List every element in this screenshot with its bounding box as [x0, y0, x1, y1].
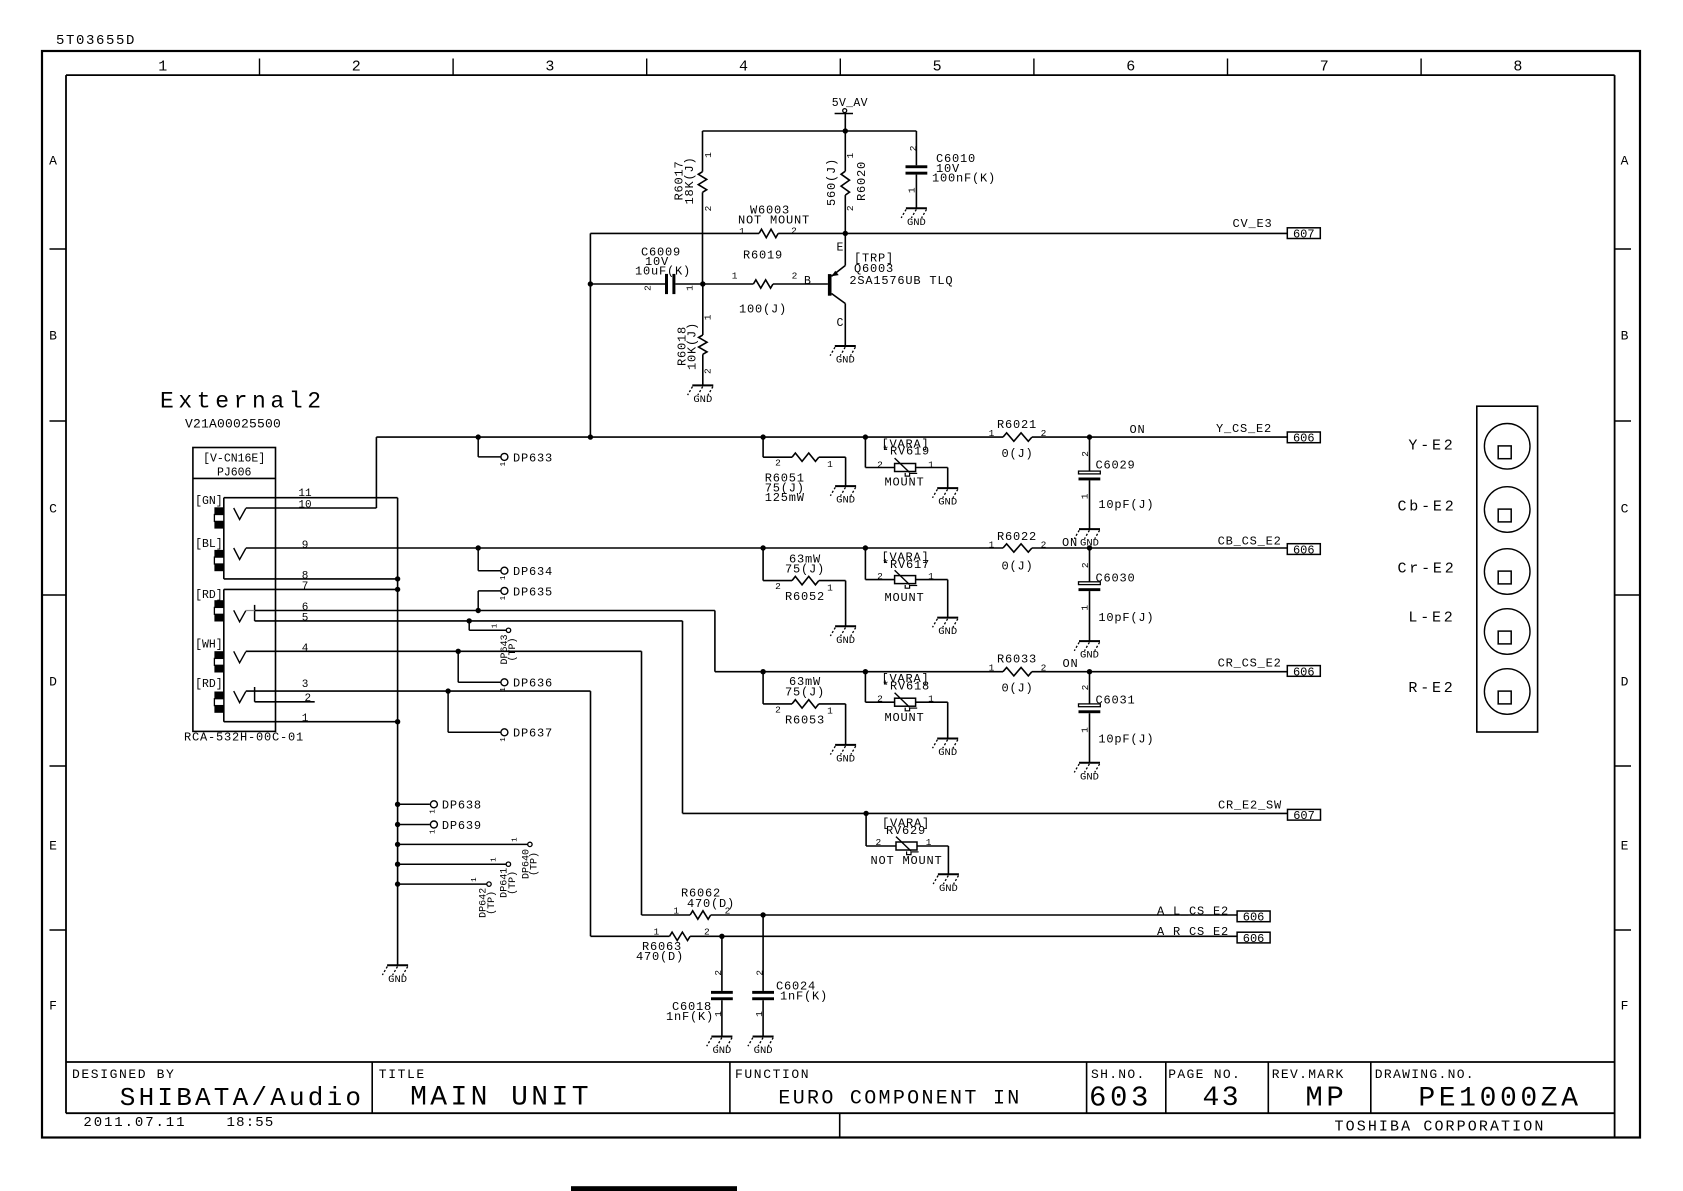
svg-text:DP639: DP639 — [442, 819, 482, 833]
svg-text:0(J): 0(J) — [1001, 559, 1033, 573]
svg-text:1: 1 — [827, 459, 833, 470]
row grid ticks right — [1615, 248, 1631, 250]
svg-text:F: F — [1621, 999, 1629, 1014]
svg-text:A_L_CS_E2: A_L_CS_E2 — [1157, 905, 1229, 919]
svg-text:5T03655D: 5T03655D — [56, 33, 136, 49]
svg-text:TITLE: TITLE — [379, 1067, 426, 1082]
svg-text:B: B — [1621, 329, 1629, 344]
junction base node — [700, 281, 705, 286]
ground under RV618 — [937, 738, 958, 740]
resistor R6052 75(J) 63mW — [760, 545, 765, 550]
capacitor C6018 1nF(K) — [721, 936, 723, 991]
svg-text:GND: GND — [907, 217, 926, 229]
top supply rail wire — [703, 130, 917, 132]
bottom edge artifact bar — [571, 1186, 737, 1191]
svg-text:1: 1 — [989, 663, 995, 674]
svg-text:2: 2 — [713, 970, 724, 976]
svg-text:1: 1 — [429, 809, 437, 814]
svg-text:[RD]: [RD] — [195, 589, 223, 602]
svg-text:Cr-E2: Cr-E2 — [1397, 560, 1456, 577]
ground under R6018 — [692, 384, 713, 386]
RD1 pin stub tying wires 5/6 — [254, 605, 256, 621]
svg-text:R6033: R6033 — [997, 653, 1037, 667]
wire pin5 descent — [682, 621, 684, 814]
column grid ticks — [259, 59, 261, 76]
svg-text:R6020: R6020 — [855, 161, 869, 201]
svg-text:(TP): (TP) — [529, 852, 541, 876]
svg-text:DRAWING.NO.: DRAWING.NO. — [1375, 1067, 1475, 1082]
svg-text:2: 2 — [877, 693, 883, 704]
junction C6009 left / vertical — [588, 281, 593, 286]
off-page box 606 A_R_CS_E2 — [1237, 932, 1270, 943]
ground under C6029 — [1079, 528, 1100, 530]
off-page box 607 CR_E2_SW — [1288, 809, 1321, 820]
svg-text:125mW: 125mW — [765, 491, 805, 505]
svg-text:7: 7 — [1320, 59, 1329, 76]
svg-text:GND: GND — [388, 974, 407, 986]
svg-text:606: 606 — [1293, 665, 1315, 679]
svg-text:607: 607 — [1293, 228, 1315, 242]
svg-text:4: 4 — [302, 643, 309, 655]
svg-text:NOT MOUNT: NOT MOUNT — [738, 214, 810, 228]
ground under R6051 — [835, 485, 856, 487]
svg-text:*RV619: *RV619 — [882, 445, 930, 459]
svg-text:1: 1 — [703, 152, 714, 158]
svg-text:2: 2 — [1041, 540, 1047, 551]
svg-text:V21A00025500: V21A00025500 — [185, 417, 281, 432]
svg-text:D: D — [1621, 675, 1629, 690]
svg-text:2SA1576UB TLQ: 2SA1576UB TLQ — [849, 274, 953, 288]
svg-text:5: 5 — [302, 612, 309, 624]
svg-text:GND: GND — [938, 497, 957, 509]
svg-text:1: 1 — [429, 829, 437, 834]
svg-text:F: F — [49, 999, 57, 1014]
svg-text:R6052: R6052 — [785, 590, 825, 604]
ground under R6052 — [835, 625, 856, 627]
svg-text:43: 43 — [1202, 1083, 1241, 1114]
svg-text:R6053: R6053 — [785, 713, 825, 727]
svg-text:MOUNT: MOUNT — [884, 476, 924, 490]
svg-text:9: 9 — [302, 540, 309, 552]
svg-text:E: E — [49, 839, 57, 854]
svg-text:EURO COMPONENT IN: EURO COMPONENT IN — [778, 1088, 1021, 1111]
jumper DP638 — [395, 802, 400, 807]
svg-text:470(D): 470(D) — [636, 950, 684, 964]
jumper DP636 — [456, 649, 461, 654]
svg-text:3: 3 — [545, 59, 554, 76]
junction C6024 tap — [760, 912, 765, 917]
off-page box 606 Y_CS_E2 — [1287, 432, 1320, 443]
junction C6018 tap — [719, 934, 724, 939]
ground under RV619 — [937, 487, 958, 489]
svg-text:REV.MARK: REV.MARK — [1272, 1067, 1345, 1082]
svg-text:18K(J): 18K(J) — [683, 156, 697, 204]
ground under C6030 — [1079, 640, 1100, 642]
svg-text:CV_E3: CV_E3 — [1232, 217, 1272, 231]
svg-text:C: C — [49, 502, 57, 517]
connector inner group box 2 (pins 7-1) — [223, 589, 225, 721]
svg-text:1: 1 — [827, 706, 833, 717]
wire pin6 descent to CR row — [714, 611, 716, 672]
wire pin10 up to Y row — [375, 437, 377, 508]
svg-text:GND: GND — [754, 1045, 773, 1057]
svg-text:1: 1 — [754, 1011, 765, 1017]
svg-text:GND: GND — [836, 754, 855, 766]
svg-text:10uF(K): 10uF(K) — [635, 265, 691, 279]
wire pin4 (audio L) — [246, 650, 642, 652]
svg-text:2: 2 — [877, 459, 883, 470]
ground under RV629 — [938, 873, 959, 875]
svg-text:1: 1 — [500, 575, 508, 580]
wire CB row right segment — [1032, 547, 1287, 549]
wire CR_E2_SW row — [683, 812, 1288, 814]
connector PJ606 V-CN16E outer box — [193, 448, 276, 732]
svg-text:ON: ON — [1129, 423, 1145, 437]
svg-text:*RV617: *RV617 — [882, 558, 930, 572]
svg-text:GND: GND — [836, 355, 855, 367]
svg-text:R-E2: R-E2 — [1408, 680, 1455, 697]
ground under RV617 — [937, 617, 958, 619]
resistor R6022 0(J) inline — [1003, 544, 1032, 552]
svg-text:8: 8 — [1513, 59, 1522, 76]
resistor R6063 470(D) — [591, 935, 670, 937]
svg-text:1: 1 — [827, 582, 833, 593]
svg-text:C6029: C6029 — [1096, 459, 1136, 473]
capacitor C6010 100nF(K) 10V — [915, 131, 917, 165]
svg-text:2011.07.11: 2011.07.11 — [83, 1115, 186, 1131]
svg-text:PE1000ZA: PE1000ZA — [1418, 1084, 1581, 1115]
ground under Q6003 collector — [835, 345, 856, 347]
svg-text:C: C — [1621, 502, 1629, 517]
wire 5V_AV down to rail — [844, 114, 846, 132]
svg-text:B: B — [804, 275, 811, 288]
resistor R6021 0(J) inline — [1003, 433, 1032, 441]
svg-text:GND: GND — [1080, 771, 1099, 783]
svg-text:10pF(J): 10pF(J) — [1098, 611, 1154, 625]
svg-text:1: 1 — [673, 905, 679, 916]
svg-text:A_R_CS_E2: A_R_CS_E2 — [1157, 925, 1229, 939]
svg-text:1: 1 — [732, 270, 738, 281]
test point DP642 (TP) — [395, 881, 400, 886]
wire CB row (pin 9) — [246, 547, 1003, 549]
resistor R6017 18K(J) — [702, 131, 704, 172]
inner drawing frame — [66, 74, 1615, 76]
svg-text:1: 1 — [654, 927, 660, 938]
svg-text:0(J): 0(J) — [1001, 447, 1033, 461]
RCA jack Cr-E2 — [1484, 549, 1530, 595]
svg-text:C6031: C6031 — [1096, 693, 1136, 707]
jumper W6003 NOT MOUNT — [759, 229, 778, 237]
svg-text:2: 2 — [1080, 684, 1091, 690]
svg-text:2: 2 — [642, 285, 653, 291]
svg-text:2: 2 — [792, 270, 798, 281]
resistor R6019 100(J) — [703, 283, 754, 285]
svg-text:10pF(J): 10pF(J) — [1098, 733, 1154, 747]
svg-text:CR_E2_SW: CR_E2_SW — [1218, 799, 1282, 813]
svg-text:[BL]: [BL] — [195, 538, 223, 551]
svg-text:External2: External2 — [160, 389, 326, 415]
ground under C6018 — [711, 1036, 732, 1038]
svg-text:ON: ON — [1062, 536, 1078, 550]
resistor R6051 75(J) 125mW — [762, 437, 764, 457]
variable resistor RV629 [VARA] NOT MOUNT — [863, 811, 868, 816]
svg-text:B: B — [49, 329, 57, 344]
svg-text:GND: GND — [938, 747, 957, 759]
svg-text:1: 1 — [926, 837, 932, 848]
svg-text:SHIBATA/Audio: SHIBATA/Audio — [120, 1083, 364, 1113]
svg-text:75(J): 75(J) — [785, 685, 825, 699]
svg-text:R6021: R6021 — [997, 418, 1037, 432]
svg-text:MOUNT: MOUNT — [884, 711, 924, 725]
off-page box 606 CR_CS_E2 — [1287, 666, 1320, 677]
svg-text:*RV618: *RV618 — [882, 680, 930, 694]
svg-text:[V-CN16E]: [V-CN16E] — [203, 453, 265, 466]
svg-text:560(J): 560(J) — [825, 158, 839, 206]
svg-text:1: 1 — [471, 877, 479, 882]
svg-text:GND: GND — [836, 635, 855, 647]
svg-text:GND: GND — [836, 495, 855, 507]
svg-text:1: 1 — [684, 285, 695, 291]
svg-text:1nF(K): 1nF(K) — [780, 990, 828, 1004]
off-page box 606 CB_CS_E2 — [1287, 544, 1320, 555]
svg-text:RCA-532H-00C-01: RCA-532H-00C-01 — [184, 730, 304, 744]
svg-text:GND: GND — [938, 626, 957, 638]
svg-text:GND: GND — [712, 1045, 731, 1057]
title block frame — [66, 1061, 1615, 1063]
svg-text:2: 2 — [775, 458, 781, 469]
resistor R6018 10K(J) — [702, 284, 704, 335]
ground under C6010 — [906, 207, 927, 209]
wire CR row right segment — [1032, 671, 1287, 673]
svg-text:1: 1 — [989, 540, 995, 551]
svg-text:1: 1 — [500, 461, 508, 466]
svg-text:2: 2 — [754, 970, 765, 976]
svg-text:R6019: R6019 — [743, 249, 783, 263]
svg-text:1: 1 — [302, 713, 309, 725]
svg-text:18:55: 18:55 — [227, 1115, 275, 1131]
ground under bus — [387, 964, 408, 966]
ground under R6053 — [835, 744, 856, 746]
jumper DP639 — [395, 822, 400, 827]
transistor Q6003 2SA1576UB TLQ PNP — [828, 274, 832, 296]
svg-text:1: 1 — [928, 693, 934, 704]
svg-text:1: 1 — [500, 737, 508, 742]
wire Y row right segment — [1032, 436, 1287, 438]
svg-text:(TP): (TP) — [507, 637, 519, 661]
svg-text:1: 1 — [928, 571, 934, 582]
svg-text:1: 1 — [1079, 605, 1090, 611]
svg-text:DESIGNED BY: DESIGNED BY — [72, 1067, 175, 1082]
capacitor C6009 10uF(K) 10V — [590, 283, 665, 285]
svg-text:DP638: DP638 — [442, 799, 482, 813]
svg-text:1: 1 — [928, 459, 934, 470]
wire pin5 (audio/SW) — [255, 620, 683, 622]
svg-text:C6030: C6030 — [1096, 571, 1136, 585]
svg-text:1: 1 — [500, 595, 508, 600]
ground under C6024 — [753, 1036, 774, 1038]
capacitor C6031 10pF(J) — [1087, 669, 1092, 674]
test point DP643 (TP) — [467, 618, 472, 623]
connector inner group box 1 (pins 11-8) — [223, 498, 225, 579]
svg-text:1: 1 — [702, 314, 713, 320]
svg-text:2: 2 — [775, 581, 781, 592]
wire Y row — [376, 436, 1003, 438]
svg-text:2: 2 — [877, 571, 883, 582]
svg-text:2: 2 — [791, 225, 797, 236]
svg-text:FUNCTION: FUNCTION — [735, 1067, 810, 1082]
svg-text:607: 607 — [1293, 809, 1315, 823]
svg-text:GND: GND — [939, 883, 958, 895]
variable resistor RV617 [VARA] MOUNT — [863, 545, 868, 550]
svg-text:SH.NO.: SH.NO. — [1091, 1067, 1146, 1082]
variable resistor RV619 [VARA] MOUNT — [863, 434, 868, 439]
svg-text:7: 7 — [302, 581, 309, 593]
svg-text:10: 10 — [298, 499, 311, 511]
svg-text:DP633: DP633 — [513, 451, 553, 465]
svg-text:DP637: DP637 — [513, 727, 553, 741]
svg-text:1: 1 — [492, 623, 500, 628]
svg-text:2: 2 — [908, 145, 919, 151]
jumper DP634 — [476, 545, 481, 550]
svg-text:606: 606 — [1243, 911, 1265, 925]
svg-text:100nF(K): 100nF(K) — [932, 171, 996, 185]
svg-text:2: 2 — [704, 927, 710, 938]
svg-text:L-E2: L-E2 — [1408, 609, 1455, 626]
svg-text:2: 2 — [703, 205, 714, 211]
svg-text:5: 5 — [933, 59, 942, 76]
capacitor C6030 10pF(J) — [1087, 545, 1092, 550]
wire C6009 left down to Y row — [589, 233, 591, 437]
svg-text:2: 2 — [304, 693, 311, 705]
svg-text:R6022: R6022 — [997, 530, 1037, 544]
capacitor C6024 1nF(K) — [762, 915, 764, 991]
svg-text:A: A — [49, 154, 57, 169]
ground bus from connector — [397, 498, 399, 966]
svg-text:603: 603 — [1089, 1082, 1152, 1115]
RCA jack Y-E2 — [1484, 424, 1530, 470]
svg-text:1: 1 — [491, 857, 499, 862]
svg-text:MAIN UNIT: MAIN UNIT — [410, 1083, 592, 1114]
svg-text:E: E — [837, 242, 844, 255]
svg-text:ON: ON — [1062, 657, 1078, 671]
svg-text:1: 1 — [512, 837, 520, 842]
wire emitter line to CV_E3 — [590, 232, 742, 234]
svg-text:10K(J): 10K(J) — [686, 322, 700, 370]
svg-text:10pF(J): 10pF(J) — [1098, 498, 1154, 512]
svg-text:2: 2 — [725, 905, 731, 916]
ground under C6031 — [1079, 762, 1100, 764]
svg-text:E: E — [1621, 839, 1629, 854]
svg-text:D: D — [49, 675, 57, 690]
date strip divider — [839, 1113, 841, 1136]
wire pin4 descent — [641, 651, 643, 915]
svg-text:1: 1 — [739, 226, 745, 237]
svg-text:6: 6 — [1126, 59, 1135, 76]
RCA jack L-E2 — [1484, 609, 1530, 655]
svg-text:75(J): 75(J) — [785, 563, 825, 577]
svg-text:NOT MOUNT: NOT MOUNT — [870, 854, 942, 868]
capacitor C6029 10pF(J) — [1087, 434, 1092, 439]
row grid ticks left — [50, 248, 66, 250]
junction E line — [843, 231, 848, 236]
svg-text:2: 2 — [1080, 451, 1091, 457]
svg-text:C: C — [837, 317, 844, 330]
svg-text:[RD]: [RD] — [195, 678, 223, 691]
svg-text:DP634: DP634 — [513, 565, 553, 579]
svg-text:A: A — [1621, 154, 1629, 169]
RCA jack Cb-E2 — [1484, 487, 1530, 533]
svg-text:1nF(K): 1nF(K) — [666, 1010, 714, 1024]
svg-text:100(J): 100(J) — [739, 303, 787, 317]
resistor R6053 75(J) 63mW — [760, 669, 765, 674]
svg-text:606: 606 — [1293, 432, 1315, 446]
svg-text:2: 2 — [702, 368, 713, 374]
svg-text:2: 2 — [1080, 562, 1091, 568]
svg-text:0(J): 0(J) — [1001, 682, 1033, 696]
svg-text:[WH]: [WH] — [195, 639, 223, 652]
test point DP640 (TP) — [395, 842, 400, 847]
svg-text:4: 4 — [739, 59, 748, 76]
svg-text:CR_CS_E2: CR_CS_E2 — [1218, 657, 1282, 671]
svg-text:2: 2 — [845, 205, 856, 211]
svg-text:1: 1 — [1079, 493, 1090, 499]
svg-text:DP636: DP636 — [513, 677, 553, 691]
svg-text:1: 1 — [845, 152, 856, 158]
svg-text:2: 2 — [352, 59, 361, 76]
svg-text:606: 606 — [1243, 932, 1265, 946]
svg-text:1: 1 — [713, 1011, 724, 1017]
svg-text:PJ606: PJ606 — [217, 467, 252, 480]
jumper DP633 — [477, 437, 479, 457]
RCA jack R-E2 — [1484, 669, 1530, 715]
svg-text:DP635: DP635 — [513, 585, 553, 599]
svg-text:1: 1 — [158, 59, 167, 76]
wire pin3 descent — [590, 691, 592, 936]
off-page box 607 CV_E3 — [1287, 228, 1320, 239]
jumper DP637 — [445, 688, 450, 693]
jumper DP635 — [476, 608, 481, 613]
wire CR row — [715, 671, 1003, 673]
resistor R6062 470(D) — [642, 914, 691, 916]
svg-text:Y-E2: Y-E2 — [1408, 437, 1455, 454]
svg-text:(TP): (TP) — [486, 891, 498, 915]
svg-text:[GN]: [GN] — [195, 495, 223, 508]
RCA jack block outline — [1477, 406, 1538, 732]
svg-text:2: 2 — [775, 704, 781, 715]
off-page box 606 A_L_CS_E2 — [1237, 911, 1270, 922]
svg-text:1: 1 — [907, 187, 918, 193]
svg-text:Y_CS_E2: Y_CS_E2 — [1216, 422, 1272, 436]
svg-text:1: 1 — [1079, 727, 1090, 733]
svg-text:MP: MP — [1305, 1082, 1347, 1115]
svg-text:MOUNT: MOUNT — [884, 591, 924, 605]
variable resistor RV618 [VARA] MOUNT — [863, 669, 868, 674]
svg-text:RV629: RV629 — [886, 824, 926, 838]
junction top rail — [843, 128, 848, 133]
svg-text:PAGE NO.: PAGE NO. — [1168, 1067, 1241, 1082]
svg-text:CB_CS_E2: CB_CS_E2 — [1218, 534, 1282, 548]
svg-text:5V_AV: 5V_AV — [832, 97, 868, 110]
svg-text:TOSHIBA CORPORATION: TOSHIBA CORPORATION — [1335, 1119, 1546, 1136]
svg-text:1: 1 — [989, 428, 995, 439]
svg-text:GND: GND — [693, 394, 712, 406]
wire pin6 (Cr signal) — [255, 610, 715, 612]
svg-text:2: 2 — [876, 837, 882, 848]
svg-text:606: 606 — [1293, 543, 1315, 557]
svg-text:3: 3 — [302, 679, 309, 691]
test point DP641 (TP) — [395, 862, 400, 867]
svg-text:Cb-E2: Cb-E2 — [1397, 498, 1456, 515]
